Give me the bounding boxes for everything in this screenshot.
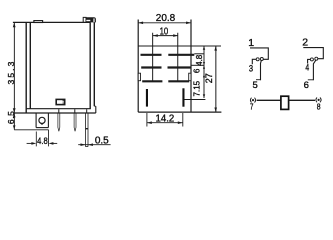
svg-text:7.15: 7.15 [192, 80, 201, 96]
svg-text:6: 6 [304, 80, 309, 91]
svg-text:35.3: 35.3 [6, 60, 16, 85]
svg-text:4.8: 4.8 [195, 54, 204, 66]
svg-text:6: 6 [193, 68, 202, 73]
svg-text:8: 8 [317, 102, 321, 112]
svg-text:4: 4 [305, 63, 309, 74]
svg-text:20.8: 20.8 [156, 12, 176, 24]
svg-text:3: 3 [249, 63, 253, 74]
svg-text:6.5: 6.5 [6, 110, 16, 124]
svg-text:27: 27 [204, 73, 214, 83]
svg-text:5: 5 [253, 80, 258, 91]
svg-text:7: 7 [250, 101, 254, 111]
svg-text:10: 10 [160, 27, 169, 38]
svg-text:14.2: 14.2 [156, 113, 175, 124]
svg-text:2: 2 [302, 36, 308, 48]
svg-text:4.8: 4.8 [37, 136, 48, 147]
svg-text:0.5: 0.5 [95, 136, 109, 147]
svg-text:1: 1 [248, 37, 254, 49]
